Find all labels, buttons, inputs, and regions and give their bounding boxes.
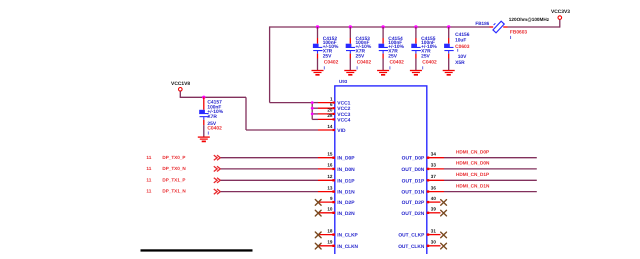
pin 14 VID: [318, 129, 335, 131]
svg-text:10uF: 10uF: [455, 38, 466, 44]
svg-text:37: 37: [431, 174, 437, 179]
capacitor C4153: [346, 44, 352, 48]
svg-text:10: 10: [327, 207, 333, 212]
svg-text:C0402: C0402: [357, 59, 372, 65]
svg-text:11: 11: [146, 177, 152, 182]
svg-text:IN_D0P: IN_D0P: [337, 156, 355, 162]
svg-text:13: 13: [327, 185, 333, 190]
wire C4154 lower: [382, 59, 384, 71]
wire C4152 upper: [317, 27, 319, 38]
pin 13 IN_D1N: [318, 191, 335, 193]
pin 19 IN_CLKN no-connect: [319, 245, 335, 247]
wire C4155 upper: [415, 27, 417, 38]
pin 30 OUT_CLKN no-connect: [427, 245, 429, 247]
power symbol VCC3V3: [558, 16, 562, 20]
pin 39 OUT_D2N no-connect: [427, 212, 429, 214]
wire C4152 lower: [317, 59, 319, 71]
pin wire C4155 top: [415, 38, 417, 44]
wire C4154 upper: [382, 27, 384, 38]
svg-text:18: 18: [327, 228, 333, 233]
svg-text:IN_D1N: IN_D1N: [337, 190, 355, 196]
svg-text:C0402: C0402: [324, 59, 339, 65]
pin wire C4155 bottom: [415, 54, 417, 59]
svg-text:VCC3V3: VCC3V3: [551, 9, 570, 15]
svg-text:20: 20: [327, 108, 333, 113]
svg-text:IN_CLKP: IN_CLKP: [337, 233, 358, 239]
wire net HDMI_CN_D1P: [444, 179, 537, 181]
ground C4155: [410, 70, 422, 72]
pin 40 OUT_D2P no-connect: [427, 201, 429, 203]
pin 33 OUT_D0N: [427, 168, 429, 170]
svg-text:IN_D2N: IN_D2N: [337, 211, 355, 217]
svg-text:11: 11: [146, 189, 152, 194]
wire VCC1V8 net: [179, 91, 181, 97]
pin wire C4157 top: [203, 97, 205, 110]
svg-text:11: 11: [146, 166, 152, 171]
svg-text:10V: 10V: [458, 54, 467, 60]
node junction C4152 on rail: [316, 25, 319, 28]
svg-text:FB0603: FB0603: [510, 29, 527, 35]
svg-text:16: 16: [327, 163, 333, 168]
ground C4152: [312, 70, 324, 72]
svg-text:28: 28: [327, 113, 333, 118]
svg-text:DP_TX0_N: DP_TX0_N: [162, 166, 186, 171]
pin 15 IN_D0P: [318, 157, 335, 159]
ferrite bead FB186: [493, 21, 504, 33]
svg-text:OUT_D2P: OUT_D2P: [402, 200, 425, 206]
node junction VCC bus: [311, 113, 314, 116]
svg-text:DP_TX0_P: DP_TX0_P: [162, 155, 185, 160]
pin wire C4157 bottom: [203, 120, 205, 125]
wire C4155 lower: [415, 59, 417, 71]
pin 9 IN_D2P no-connect: [319, 201, 335, 203]
wire C4156 upper: [448, 27, 450, 38]
svg-text:HDMI_CN_D0P: HDMI_CN_D0P: [456, 150, 489, 155]
pin 1 VCC1: [312, 102, 318, 104]
svg-text:OUT_D1P: OUT_D1P: [402, 178, 425, 184]
svg-text:36: 36: [431, 185, 437, 190]
pin wire C4154 top: [382, 38, 384, 44]
svg-text:OUT_CLKN: OUT_CLKN: [398, 244, 425, 250]
capacitor C4154: [379, 44, 385, 48]
svg-text:IN_CLKN: IN_CLKN: [337, 244, 358, 250]
ground C4154: [377, 70, 389, 72]
svg-text:C0402: C0402: [207, 126, 222, 132]
pin wire FB186 left: [490, 26, 494, 28]
ground C4157: [198, 136, 210, 138]
svg-text:C0402: C0402: [390, 59, 405, 65]
pin 28 VCC4: [312, 118, 318, 120]
node junction VCC bus: [311, 101, 314, 104]
svg-text:X7R: X7R: [207, 114, 217, 120]
svg-text:40: 40: [431, 196, 437, 201]
ferrite bead FB186 polarity tick: [494, 23, 496, 25]
pin wire C4153 top: [349, 38, 351, 44]
wire VCC feed to U93: [270, 102, 313, 104]
pin wire C4156 top: [448, 38, 450, 44]
svg-text:OUT_D1N: OUT_D1N: [401, 190, 424, 196]
node junction C4153 on rail: [349, 25, 352, 28]
wire DP_TX0_N to pin 16: [221, 168, 319, 170]
svg-text:VCC3: VCC3: [337, 112, 350, 118]
wire VCC bus vertical: [311, 103, 313, 120]
wire DP_TX1_P to pin 12: [221, 179, 319, 181]
op-amp U93 body: [335, 86, 427, 259]
svg-text:120Ohm@100MHz: 120Ohm@100MHz: [509, 17, 550, 22]
svg-text:DP_TX1_N: DP_TX1_N: [162, 189, 186, 194]
capacitor C4152: [313, 44, 319, 48]
pin 20 VCC3: [312, 113, 318, 115]
capacitor C4156: [444, 44, 450, 48]
pin 10 IN_D2N no-connect: [319, 212, 335, 214]
wire C4153 lower: [349, 59, 351, 71]
svg-text:C0402: C0402: [422, 59, 437, 65]
wire net HDMI_CN_D1N: [444, 191, 537, 193]
svg-text:12: 12: [327, 174, 333, 179]
svg-text:33: 33: [431, 163, 437, 168]
pin wire C4153 bottom: [349, 54, 351, 59]
svg-text:VID: VID: [337, 128, 346, 134]
svg-text:31: 31: [431, 228, 437, 233]
wire DP_TX0_P to pin 15: [221, 157, 319, 159]
wire VCC3V3 left drop: [269, 26, 271, 102]
svg-text:HDMI_CN_D1N: HDMI_CN_D1N: [456, 183, 490, 188]
node junction C4156 on rail: [447, 25, 450, 28]
svg-text:25V: 25V: [356, 53, 365, 59]
svg-text:OUT_D2N: OUT_D2N: [401, 211, 424, 217]
wire C4156 lower: [448, 59, 450, 71]
svg-text:IN_D2P: IN_D2P: [337, 200, 355, 206]
pin 31 OUT_CLKP no-connect: [427, 233, 429, 235]
svg-text:HDMI_CN_D0N: HDMI_CN_D0N: [456, 161, 490, 166]
svg-text:30: 30: [431, 240, 437, 245]
svg-text:C4156: C4156: [455, 32, 470, 38]
svg-text:39: 39: [431, 207, 437, 212]
pin 18 IN_CLKP no-connect: [319, 234, 335, 236]
svg-text:DP_TX1_P: DP_TX1_P: [162, 177, 185, 182]
capacitor C4157: [199, 110, 205, 114]
svg-text:OUT_D0P: OUT_D0P: [402, 156, 425, 162]
svg-text:VCC1: VCC1: [337, 101, 350, 107]
svg-text:19: 19: [327, 240, 333, 245]
svg-text:X5R: X5R: [455, 60, 465, 66]
node junction C4157: [202, 96, 205, 99]
node junction C4154 on rail: [381, 25, 384, 28]
svg-text:11: 11: [146, 155, 152, 160]
svg-text:FB186: FB186: [475, 21, 489, 26]
wire C4153 upper: [349, 27, 351, 38]
pin 16 IN_D0N: [318, 168, 335, 170]
svg-text:1: 1: [330, 96, 333, 101]
wire C4157 lower: [203, 125, 205, 137]
ground C4153: [344, 70, 356, 72]
wire DP_TX1_N to pin 13: [221, 191, 319, 193]
pin 36 OUT_D1N: [427, 190, 429, 192]
pin 37 OUT_D1P: [427, 179, 429, 181]
pin 12 IN_D1P: [318, 179, 335, 181]
svg-text:OUT_CLKP: OUT_CLKP: [398, 233, 425, 239]
svg-text:IN_D1P: IN_D1P: [337, 178, 355, 184]
node junction C4155 on rail: [414, 25, 417, 28]
pin 6 VCC2: [312, 107, 318, 109]
pin wire C4156 bottom: [448, 54, 450, 59]
wire FB186 to VCC3V3: [508, 26, 560, 28]
svg-text:14: 14: [327, 124, 333, 129]
pin wire FB186 right: [503, 26, 507, 28]
svg-text:15: 15: [327, 152, 333, 157]
node junction VCC bus: [311, 107, 314, 110]
svg-text:25V: 25V: [388, 53, 397, 59]
pin wire C4152 bottom: [317, 54, 319, 59]
svg-text:OUT_D0N: OUT_D0N: [401, 167, 424, 173]
svg-text:25V: 25V: [323, 53, 332, 59]
wire VCC3V3 rail: [270, 26, 490, 28]
pin 34 OUT_D0P: [427, 157, 429, 159]
svg-text:U93: U93: [339, 79, 348, 84]
svg-text:9: 9: [330, 196, 333, 201]
svg-text:IN_D0N: IN_D0N: [337, 167, 355, 173]
ground C4156: [443, 70, 455, 72]
power symbol VCC1V8: [179, 88, 183, 92]
svg-text:HDMI_CN_D1P: HDMI_CN_D1P: [456, 172, 489, 177]
svg-text:34: 34: [431, 152, 437, 157]
pin wire C4152 top: [317, 38, 319, 44]
svg-text:VCC1V8: VCC1V8: [171, 81, 190, 87]
title block border: [141, 249, 253, 251]
capacitor C4155: [411, 44, 417, 48]
svg-text:VCC2: VCC2: [337, 106, 350, 112]
wire net HDMI_CN_D0P: [444, 157, 537, 159]
pin wire C4154 bottom: [382, 54, 384, 59]
wire net HDMI_CN_D0N: [444, 168, 537, 170]
svg-text:6: 6: [330, 102, 333, 107]
svg-text:25V: 25V: [421, 53, 430, 59]
svg-text:VCC4: VCC4: [337, 117, 350, 123]
